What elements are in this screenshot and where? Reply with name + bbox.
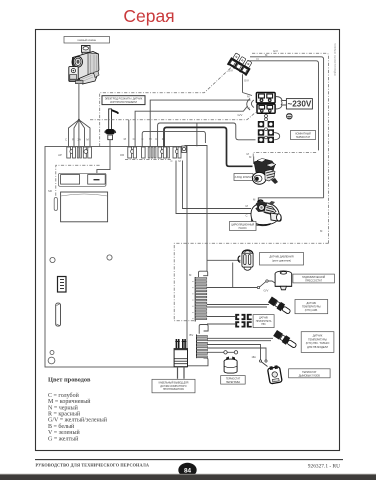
comb1 pin ticks [192, 281, 193, 319]
connector AP pin row [67, 147, 92, 158]
comb connector CN1 [195, 271, 208, 321]
svg-text:ДЫМОВЫХ ГАЗОВ: ДЫМОВЫХ ГАЗОВ [299, 374, 321, 377]
hydr pressostat wires + switch [207, 287, 257, 289]
NTC DHW wires [207, 337, 273, 339]
NTC heating sensor [268, 296, 292, 316]
svg-text:ДЛЯ НВ МОДЕЛИ: ДЛЯ НВ МОДЕЛИ [307, 346, 328, 349]
svg-text:СЕРАЯ ПРОВОДКА: СЕРАЯ ПРОВОДКА [333, 55, 336, 76]
water pressure switch icon [238, 250, 253, 270]
3-way valve icon [252, 159, 278, 185]
svg-text:84: 84 [184, 467, 192, 474]
svg-text:ПРИОРИТЕТА: ПРИОРИТЕТА [256, 320, 272, 323]
svg-text:(реле давления): (реле давления) [272, 260, 291, 263]
svg-text:КОНТРОЛЯ ПЛАМЕНИ: КОНТРОЛЯ ПЛАМЕНИ [110, 101, 137, 104]
svg-text:C: C [170, 159, 172, 163]
SR sensor capsule [54, 198, 57, 211]
chain line SR probe [56, 165, 100, 197]
DHW priority sensor wires [207, 316, 235, 318]
svg-text:ЦИРКУЛЯЦИОННЫЙ: ЦИРКУЛЯЦИОННЫЙ [231, 224, 254, 227]
svg-text:ТЕМПЕРАТУРЫ: ТЕМПЕРАТУРЫ [308, 338, 327, 341]
electrode label box [102, 96, 145, 105]
mounting hole [50, 257, 55, 262]
svg-text:ПРОГРАММАТОРА: ПРОГРАММАТОРА [163, 388, 184, 391]
flue thermostat icon [267, 365, 282, 384]
water pressure switch wires [207, 259, 241, 261]
wire M pin down [183, 161, 252, 209]
svg-text:C: C [155, 137, 157, 141]
chain to valve [253, 153, 316, 157]
svg-text:C: C [65, 137, 67, 141]
NTC heating label box [295, 300, 328, 314]
svg-text:ТЕРМОСТАТ: ТЕРМОСТАТ [296, 136, 311, 139]
X40 plug [174, 339, 187, 379]
pump wires top [258, 198, 323, 203]
overheat label box [221, 376, 246, 385]
wire block to fuse [242, 74, 244, 92]
svg-text:N = черный: N = черный [48, 404, 79, 411]
room thermostat label box [291, 131, 316, 140]
harness fan-out to AP pins [69, 120, 91, 146]
svg-text:3-ХОД. КЛАПАН: 3-ХОД. КЛАПАН [235, 176, 253, 179]
chain line electrode [100, 65, 234, 147]
svg-text:ДАТЧИК ДАВЛЕНИЯ: ДАТЧИК ДАВЛЕНИЯ [269, 256, 293, 259]
svg-text:BV: BV [190, 333, 194, 337]
terminal block mains 3-pole [227, 52, 254, 76]
wire inner loop [142, 131, 205, 146]
switch contacts [252, 356, 268, 367]
svg-text:V = зеленый: V = зеленый [48, 429, 81, 436]
junction dot harness apex [78, 119, 80, 121]
svg-text:G = желтый: G = желтый [48, 435, 79, 442]
diagram frame [36, 30, 340, 451]
svg-text:газовый клапан: газовый клапан [77, 38, 96, 42]
hydraulic pressostat cylinder [275, 271, 292, 290]
svg-text:G/V: G/V [244, 79, 249, 83]
transformer TR [59, 173, 108, 222]
svg-text:ДАТЧИК: ДАТЧИК [259, 317, 268, 320]
gas valve label box [64, 37, 110, 44]
DHW priority label box [253, 315, 274, 328]
svg-text:G/V: G/V [273, 49, 278, 53]
svg-text:AP: AP [58, 153, 62, 157]
svg-text:ГИДРАВЛИЧЕСКИЙ: ГИДРАВЛИЧЕСКИЙ [302, 276, 325, 279]
DHW priority connector icons [235, 314, 252, 328]
chain wire G/V [90, 112, 256, 120]
wire valve stub [253, 157, 255, 165]
svg-text:OR: OR [120, 153, 124, 157]
svg-text:G/V = желтый/зеленый: G/V = желтый/зеленый [48, 417, 108, 424]
svg-text:~230V: ~230V [287, 100, 311, 109]
mounting hole small [50, 351, 54, 355]
svg-text:C = голубой: C = голубой [48, 392, 80, 399]
wire M mains [150, 100, 250, 146]
valve label box [234, 174, 253, 181]
svg-text:(NTC) АКВ.: (NTC) АКВ. [305, 309, 318, 312]
water pressure label box [260, 253, 304, 266]
page number oval [178, 463, 196, 477]
svg-text:R = красный: R = красный [48, 411, 81, 418]
fuse terminal row 1 [256, 93, 275, 103]
wire N mains [135, 106, 247, 147]
terminal pair row 3 [258, 121, 274, 131]
svg-text:ГВС: ГВС [261, 324, 266, 326]
wire gas valve down [78, 84, 80, 120]
X40 label box [152, 379, 195, 393]
svg-text:N: N [257, 57, 259, 61]
chain line low-voltage top [174, 243, 328, 321]
mounting hole [107, 255, 112, 260]
chain line mid [125, 159, 172, 161]
link circles between rows [265, 115, 268, 118]
wire thick to valve [164, 127, 253, 166]
flue thermostat label box [289, 369, 331, 378]
bracket fuse to 230V [276, 97, 287, 110]
bus wire right of PCB [185, 146, 208, 272]
wire electrode to transformer [97, 140, 110, 174]
svg-text:B = белый: B = белый [48, 423, 75, 430]
pump label box [230, 222, 257, 231]
comb connector CN2 [186, 325, 208, 366]
hydr pressostat label box [293, 274, 335, 283]
svg-text:G/V: G/V [238, 113, 243, 117]
connector OR pin row [128, 146, 187, 158]
jumper bracket room thermostat [274, 133, 280, 140]
legend entries [48, 392, 108, 442]
svg-text:G/V: G/V [264, 289, 269, 293]
wire loop vertical [196, 123, 198, 146]
NTC heating wires [207, 304, 269, 306]
earth screw symbol [287, 113, 293, 119]
terminal pair row 5 [258, 137, 274, 143]
svg-text:Серая: Серая [123, 6, 174, 26]
wire to terminal row [158, 123, 256, 147]
svg-text:926327.1 - RU: 926327.1 - RU [308, 464, 340, 470]
svg-text:РУКОВОДСТВО ДЛЯ ТЕХНИЧЕСКОГО П: РУКОВОДСТВО ДЛЯ ТЕХНИЧЕСКОГО ПЕРСОНАЛА [36, 463, 150, 468]
mounting hole big [48, 357, 55, 364]
overheat thermostat icon [224, 357, 237, 374]
svg-text:ПРЕССОСТАТ: ПРЕССОСТАТ [305, 280, 322, 283]
DIP connector on PCB [58, 277, 67, 293]
NTC DHW label box [301, 332, 334, 353]
flue thermostat wires [207, 345, 261, 361]
slot connector on PCB [56, 303, 61, 326]
svg-text:16A: 16A [252, 356, 257, 359]
wires block to right column [252, 53, 329, 243]
NTC DHW sensor [273, 330, 298, 350]
svg-text:ДАТЧИК: ДАТЧИК [313, 335, 323, 338]
PCB board outline [45, 147, 187, 368]
svg-text:C: C [133, 137, 135, 141]
svg-text:M = коричневый: M = коричневый [48, 398, 91, 405]
wire C pin down [176, 161, 251, 214]
svg-text:R: R [72, 137, 74, 141]
fuse terminal row 2 [257, 104, 275, 113]
footer rule [35, 459, 343, 461]
svg-text:ПЕРЕГРЕВА: ПЕРЕГРЕВА [226, 381, 241, 384]
bracket fuse left [247, 99, 254, 111]
svg-text:C: C [246, 214, 248, 218]
terminal pair row 4 [258, 129, 274, 139]
svg-text:G/V: G/V [228, 69, 233, 73]
svg-text:2A: 2A [77, 137, 81, 141]
overheat thermostat wire [207, 351, 236, 353]
svg-text:SR: SR [48, 189, 52, 193]
svg-text:ГОЛУБАЯ: ГОЛУБАЯ [333, 43, 336, 54]
gas valve GV [69, 46, 99, 85]
box ~230V [286, 99, 312, 109]
svg-text:Цвет проводов: Цвет проводов [48, 376, 91, 383]
svg-text:(NTC) ГВС. ТОЛЬКО: (NTC) ГВС. ТОЛЬКО [306, 342, 330, 345]
pump icon [251, 200, 281, 226]
ignition electrode [104, 109, 119, 140]
svg-text:НАСОС: НАСОС [239, 227, 248, 230]
bottom page-edge band [0, 475, 376, 480]
